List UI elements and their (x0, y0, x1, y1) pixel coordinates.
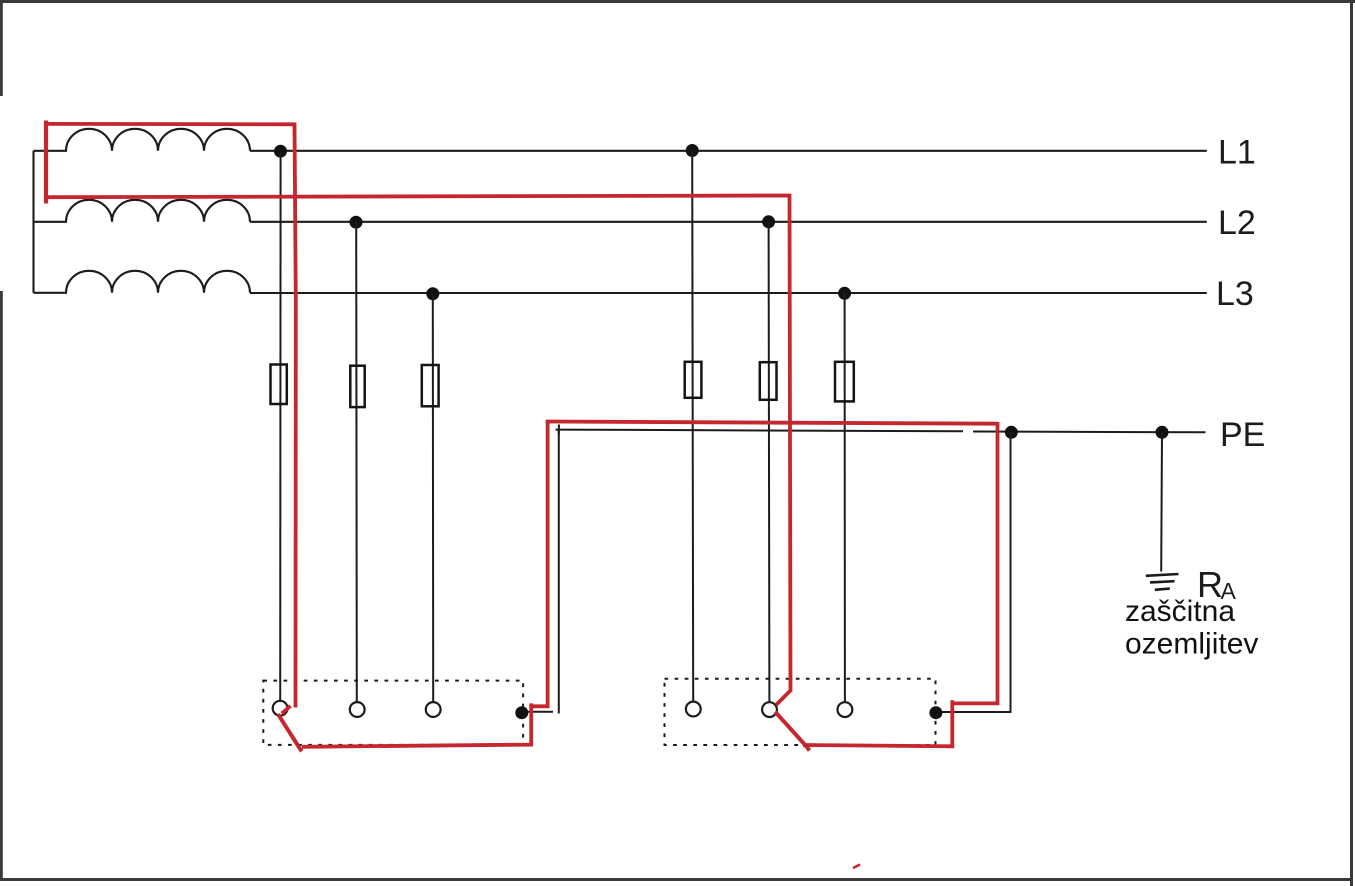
svg-text:PE: PE (1220, 416, 1265, 454)
fuse F5 (760, 362, 777, 400)
fuse F2 (350, 366, 364, 407)
terminal 2 (350, 702, 365, 717)
transformer winding W1 (phase L1) (34, 129, 251, 151)
node on L3 (left tap) (426, 287, 439, 300)
node on L2 (right tap) (762, 215, 775, 228)
terminal 3 (426, 702, 441, 717)
fuse F3 (422, 365, 439, 406)
svg-text:zaščitna: zaščitna (1125, 595, 1235, 628)
red fault path: L1 tap over transformer (44, 121, 296, 708)
node PE to earth electrode (1156, 426, 1169, 439)
wire L2 phase conductor (250, 221, 1207, 223)
terminal 6 (838, 702, 853, 717)
terminal 5 (762, 702, 777, 717)
transformer star-point bus (32, 151, 34, 293)
node on L1 (left tap) (274, 145, 287, 158)
wire drop from L1 right tap to terminal 4 (692, 151, 693, 702)
node PE to left installation (1005, 426, 1018, 439)
wire PE conductor (556, 430, 964, 432)
transformer winding W2 (phase L2) (34, 200, 251, 222)
transformer winding W3 (phase L3) (34, 271, 251, 293)
svg-text:L3: L3 (1216, 275, 1254, 313)
wire L1 phase conductor (250, 150, 1207, 152)
wire drop from L3 left tap to terminal 3 (432, 294, 434, 703)
red fault link into terminal 1 (282, 706, 291, 714)
wire PE drop to right appliance (elbow to dot) (941, 711, 1012, 713)
wire PE drop to left appliance (elbow to dot) (527, 711, 553, 713)
wire drop from L2 left tap to terminal 2 (355, 222, 358, 702)
red fault path: L2 feed to appliance 2 (47, 196, 791, 706)
terminal 4 (686, 702, 701, 717)
fuse F1 (271, 365, 287, 405)
red fault diagonal in appliance 1 (278, 714, 302, 751)
node PE terminal appliance 1 (515, 706, 528, 719)
node on L1 (right tap) (686, 144, 699, 157)
wire drop from L2 right tap to terminal 5 (768, 222, 771, 702)
fuse F4 (685, 362, 702, 398)
svg-text:ozemljitev: ozemljitev (1125, 628, 1258, 661)
PE corner tick (hand overshoot) (558, 425, 560, 435)
terminal 1 (273, 701, 288, 716)
fuse F6 (835, 362, 854, 402)
wire drop from L1 left tap to terminal 1 (279, 151, 281, 701)
red stray mark bottom (853, 865, 860, 869)
svg-text:L1: L1 (1218, 134, 1256, 172)
red return drop right (to appliance 2) (954, 422, 998, 703)
wire PE drop to right appliance (vertical) (1010, 432, 1012, 711)
node PE terminal appliance 2 (929, 706, 942, 719)
ground symbol (earth electrode) (1146, 574, 1179, 590)
red fault diagonal in appliance 2 (775, 712, 809, 751)
wire drop from L3 right tap to terminal 6 (844, 293, 846, 702)
wire PE conductor (segment to earth tap) (973, 431, 1206, 434)
red return drop left (to appliance 1) (533, 420, 548, 706)
wire L3 phase conductor (250, 292, 1207, 294)
appliance enclosure 1 (dashed) (263, 681, 523, 745)
node on L2 (left tap) (350, 216, 363, 229)
wire PE drop to left appliance (vertical) (558, 430, 560, 714)
node on L3 (right tap) (838, 287, 851, 300)
wire earth electrode lead (1160, 432, 1163, 571)
appliance enclosure 2 (dashed) (665, 679, 936, 745)
svg-text:L2: L2 (1218, 204, 1256, 242)
red PE return conductor (top run) (546, 422, 998, 424)
